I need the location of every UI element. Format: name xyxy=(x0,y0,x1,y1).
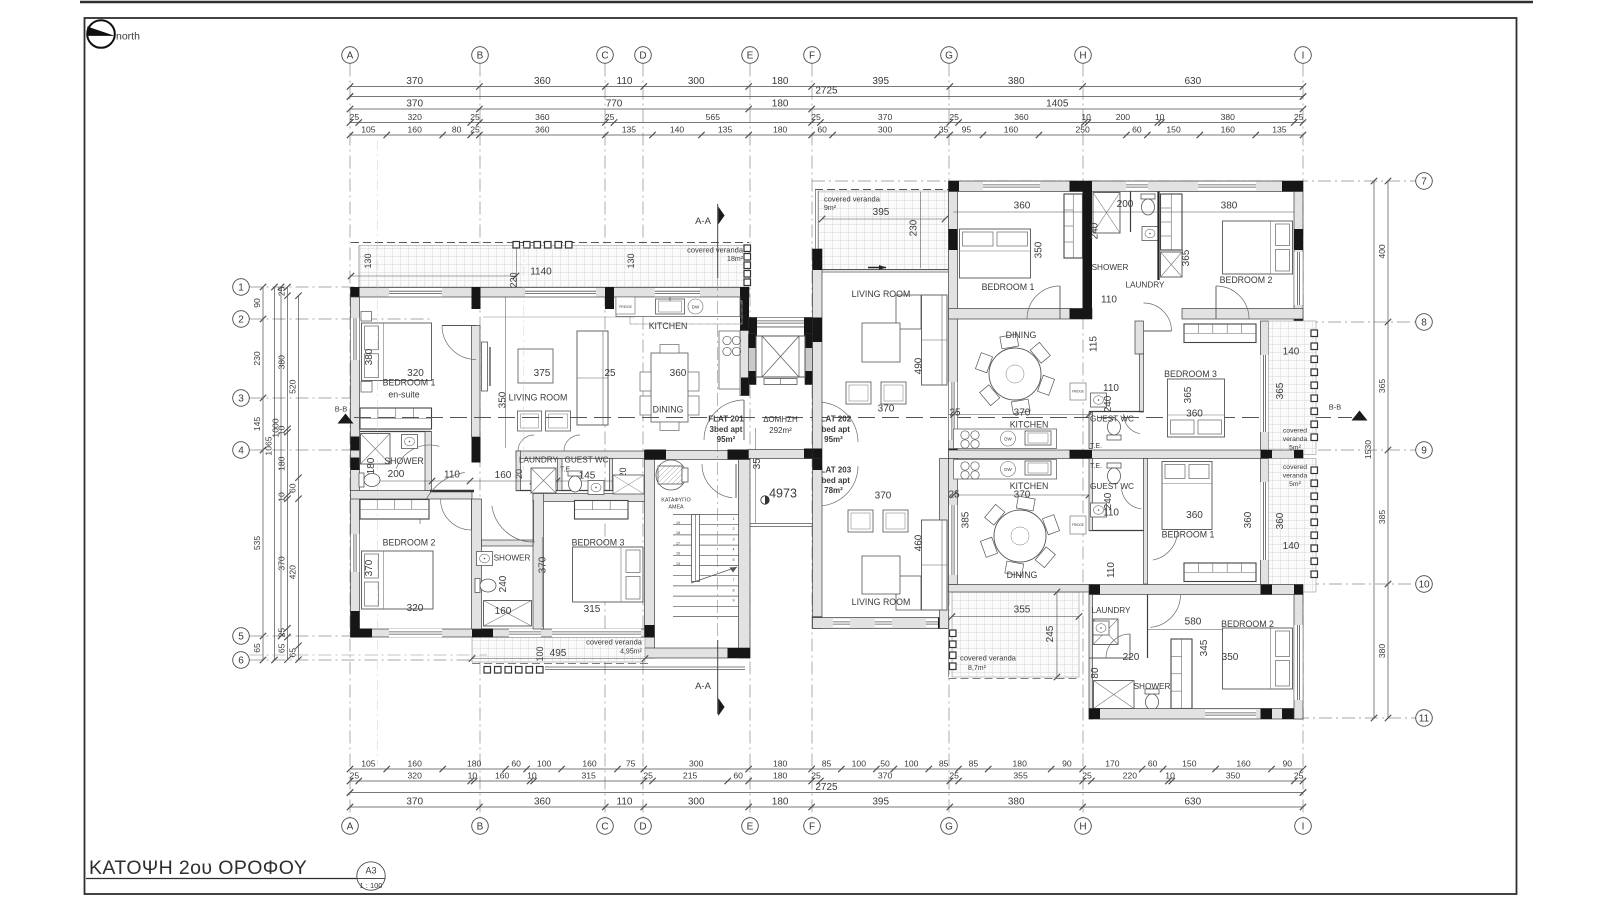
flat 203 entry door xyxy=(818,466,858,506)
bed bedroom 2 xyxy=(362,551,434,609)
dining chairs 202 xyxy=(1037,375,1054,395)
grid line row 8 (right) xyxy=(1305,321,1416,323)
svg-text:11: 11 xyxy=(1419,713,1430,724)
wardrobe xyxy=(1184,563,1256,582)
svg-text:365: 365 xyxy=(1275,382,1286,399)
svg-text:D: D xyxy=(639,50,646,61)
flat 203 bottom wall (row 11) xyxy=(1089,709,1303,720)
armchair xyxy=(883,510,908,532)
column row11 I xyxy=(1282,709,1303,720)
shower tray xyxy=(1093,193,1120,234)
dimension chain left inner (520 60 420) xyxy=(298,296,300,660)
svg-text:65: 65 xyxy=(277,643,287,653)
sink 202 xyxy=(1025,431,1051,445)
partition guestwc/bedroom1 203 xyxy=(1144,459,1148,585)
stairwell top wall xyxy=(645,451,751,460)
svg-text:180: 180 xyxy=(366,457,377,474)
svg-text:A: A xyxy=(347,50,354,61)
svg-text:80: 80 xyxy=(452,125,462,135)
window bedroom2 203 bottom xyxy=(1205,710,1256,718)
svg-text:2725: 2725 xyxy=(815,782,838,793)
grid bubble F top xyxy=(804,47,821,64)
svg-text:20: 20 xyxy=(514,469,524,479)
wardrobe xyxy=(1171,639,1192,709)
window bedroom2-202 xyxy=(1198,182,1256,190)
svg-text:en-suite: en-suite xyxy=(388,390,419,400)
svg-text:95m²: 95m² xyxy=(717,435,736,444)
grid line row 4 (left) xyxy=(250,449,353,451)
svg-text:90: 90 xyxy=(1282,759,1292,769)
svg-text:covered veranda: covered veranda xyxy=(824,195,881,204)
svg-text:200: 200 xyxy=(1116,112,1131,122)
grid line A (vertical) xyxy=(349,64,351,818)
window laundry 202 xyxy=(1126,182,1148,190)
svg-text:GUEST WC: GUEST WC xyxy=(565,456,609,465)
svg-text:135: 135 xyxy=(718,125,733,135)
grid line row 5 (left) xyxy=(250,635,353,637)
scale stamp A3 1:100 xyxy=(357,862,385,890)
shower tray xyxy=(1094,681,1135,709)
svg-text:140: 140 xyxy=(670,125,685,135)
veranda 8.7 dashed edge xyxy=(949,678,1080,680)
svg-text:630: 630 xyxy=(1184,797,1201,808)
column stair W2 xyxy=(645,648,655,658)
svg-text:6: 6 xyxy=(238,655,244,666)
dw 202 xyxy=(1001,431,1016,446)
svg-text:DW: DW xyxy=(692,305,700,310)
door guestwc 201 xyxy=(564,435,580,451)
svg-text:170: 170 xyxy=(1105,759,1120,769)
svg-text:400: 400 xyxy=(1377,244,1387,259)
svg-text:65: 65 xyxy=(252,643,262,653)
svg-text:BEDROOM 1: BEDROOM 1 xyxy=(383,378,436,388)
grid bubble B top xyxy=(472,47,489,64)
svg-text:1530: 1530 xyxy=(1363,440,1373,459)
svg-text:25: 25 xyxy=(470,112,480,122)
section A-A line through plan xyxy=(717,278,719,640)
svg-text:380: 380 xyxy=(1221,201,1238,212)
window dining 203 xyxy=(949,505,957,575)
svg-text:GUEST WC: GUEST WC xyxy=(1090,415,1134,424)
column G top xyxy=(949,181,960,192)
kitchen wall cabinets line xyxy=(616,300,742,302)
grid line C (vertical) xyxy=(604,64,606,818)
bedroom 3 top wall xyxy=(533,494,645,502)
stairwell bottom wall xyxy=(645,648,751,658)
svg-text:770: 770 xyxy=(606,99,623,110)
stair treads xyxy=(673,514,739,516)
grid bubble row 6 left xyxy=(233,652,250,669)
door bedroom 1 xyxy=(442,326,476,360)
column A5 corner xyxy=(351,629,373,638)
column A5 xyxy=(351,611,360,631)
chaise 202 xyxy=(896,295,921,329)
svg-text:180: 180 xyxy=(467,759,482,769)
wash basin xyxy=(1091,393,1107,407)
svg-text:25: 25 xyxy=(350,771,360,781)
door bedroom2 202 xyxy=(1216,286,1249,319)
column F south xyxy=(813,449,823,459)
svg-text:DW: DW xyxy=(1004,467,1012,472)
svg-text:BEDROOM 2: BEDROOM 2 xyxy=(383,538,436,548)
svg-text:85: 85 xyxy=(822,759,832,769)
table xyxy=(518,349,553,383)
svg-text:300: 300 xyxy=(688,76,705,87)
column mid shower xyxy=(1070,309,1093,320)
svg-text:385: 385 xyxy=(961,511,972,528)
svg-text:I: I xyxy=(1302,821,1305,832)
svg-text:380: 380 xyxy=(277,355,287,370)
column I row8 xyxy=(1294,309,1303,322)
svg-text:370: 370 xyxy=(875,491,892,502)
svg-text:25: 25 xyxy=(277,286,287,296)
svg-text:DINING: DINING xyxy=(653,405,684,415)
column row10 I xyxy=(1294,585,1303,595)
svg-text:380: 380 xyxy=(1221,112,1236,122)
table xyxy=(651,353,688,422)
svg-text:A: A xyxy=(347,821,354,832)
svg-text:ΚΑΤΑΦΥΓΙΟ: ΚΑΤΑΦΥΓΙΟ xyxy=(661,498,691,504)
svg-text:SHOWER: SHOWER xyxy=(1134,682,1171,691)
wardrobe xyxy=(1184,324,1256,343)
column bottom middle xyxy=(472,629,493,638)
kitchen overhead cabinet dashed outline xyxy=(630,301,742,324)
svg-text:365: 365 xyxy=(1183,386,1194,403)
flat 201 left wall xyxy=(351,297,360,637)
right building west wall (G) xyxy=(949,192,958,459)
wardrobe xyxy=(360,500,429,520)
svg-text:200: 200 xyxy=(1117,199,1134,210)
svg-text:KITCHEN: KITCHEN xyxy=(649,321,688,331)
svg-text:A-A: A-A xyxy=(695,681,712,692)
secondary grid line x=377 xyxy=(377,140,379,765)
svg-text:360: 360 xyxy=(1186,510,1203,521)
stair direction arrow xyxy=(691,567,737,583)
svg-text:10: 10 xyxy=(527,771,537,781)
svg-text:180: 180 xyxy=(277,456,287,471)
armchair xyxy=(848,510,873,532)
svg-text:115: 115 xyxy=(1089,336,1100,352)
svg-text:145: 145 xyxy=(252,417,262,432)
(dup) column xyxy=(645,450,667,460)
svg-text:2: 2 xyxy=(733,527,735,531)
column row10 W xyxy=(1089,585,1100,595)
svg-text:355: 355 xyxy=(1014,605,1031,616)
svg-text:25: 25 xyxy=(604,368,616,379)
svg-text:8: 8 xyxy=(733,588,735,592)
svg-text:105: 105 xyxy=(361,759,376,769)
svg-text:360: 360 xyxy=(534,76,551,87)
balustrade posts veranda right edge xyxy=(744,245,751,252)
armchair xyxy=(846,382,871,404)
dimension chain left total 1065 xyxy=(274,287,276,660)
svg-text:380: 380 xyxy=(364,348,375,365)
svg-text:7: 7 xyxy=(1421,176,1427,187)
svg-text:370: 370 xyxy=(538,556,549,573)
svg-text:490: 490 xyxy=(914,357,925,374)
grid bubble I top xyxy=(1295,47,1312,64)
svg-text:25: 25 xyxy=(1294,112,1304,122)
wash basin xyxy=(1093,621,1109,635)
dimension chain top row 1 (grid spans) xyxy=(350,86,1303,88)
veranda 4.95 rail lines xyxy=(545,666,745,668)
grid line row 3 (left) xyxy=(250,397,361,399)
svg-text:350: 350 xyxy=(498,391,509,408)
elevator shaft walls xyxy=(749,318,813,328)
window bedroom2-202 east xyxy=(1294,252,1302,305)
svg-text:95m²: 95m² xyxy=(824,435,843,444)
svg-text:A-A: A-A xyxy=(695,216,712,227)
grid line row 6 (left) xyxy=(250,659,488,661)
svg-text:LAUNDRY: LAUNDRY xyxy=(519,456,559,465)
svg-text:370: 370 xyxy=(406,797,423,808)
dishwasher xyxy=(688,299,703,314)
column living 203 SE xyxy=(938,618,949,629)
svg-text:10: 10 xyxy=(468,771,478,781)
svg-text:G: G xyxy=(945,821,953,832)
grid line row 9 (right) xyxy=(1318,449,1416,451)
svg-text:370: 370 xyxy=(1014,408,1031,419)
svg-text:110: 110 xyxy=(1106,562,1117,578)
table xyxy=(862,323,900,362)
svg-text:460: 460 xyxy=(914,534,925,551)
fridge xyxy=(616,297,635,314)
svg-text:4: 4 xyxy=(238,445,244,456)
sofa xyxy=(922,295,948,385)
hall dim line xyxy=(362,480,645,482)
svg-text:60: 60 xyxy=(817,125,827,135)
column core SE xyxy=(804,449,813,459)
window kitchen 202 xyxy=(949,382,957,440)
door laundry 203 xyxy=(1106,634,1130,658)
column F 203 south xyxy=(813,617,823,629)
armchair xyxy=(881,382,906,404)
flat 201 kitchen east wall xyxy=(740,331,749,396)
grid bubble A bottom xyxy=(342,818,359,835)
flat 203 east wall lower xyxy=(1294,595,1303,720)
toilet xyxy=(1145,689,1159,710)
column party 1 xyxy=(1070,450,1093,459)
flat 202 entry door xyxy=(818,402,858,442)
kitchen sink xyxy=(656,299,685,314)
svg-text:DINING: DINING xyxy=(1007,570,1038,580)
column core SW low xyxy=(749,371,757,385)
svg-text:BEDROOM 3: BEDROOM 3 xyxy=(572,538,625,548)
dw 203 xyxy=(1001,462,1016,477)
svg-text:DW: DW xyxy=(1004,437,1012,442)
hall lobby wall xyxy=(430,490,474,493)
secondary grid line x=524 xyxy=(523,246,525,470)
column A4a xyxy=(351,437,360,451)
column C1 xyxy=(605,287,614,309)
svg-text:E: E xyxy=(747,821,754,832)
svg-text:105: 105 xyxy=(361,125,376,135)
grid bubble row 8 right xyxy=(1416,314,1433,331)
stairwell west wall xyxy=(645,451,655,659)
svg-text:F: F xyxy=(809,50,815,61)
svg-text:D: D xyxy=(639,821,646,832)
svg-text:8,7m²: 8,7m² xyxy=(968,665,987,672)
svg-text:160: 160 xyxy=(1236,759,1251,769)
dimension chain left outer (90 230 145 535 65) xyxy=(262,287,264,660)
svg-text:covered veranda: covered veranda xyxy=(687,246,744,255)
column I mid1 xyxy=(1294,229,1303,250)
grid bubble D bottom xyxy=(635,818,652,835)
window shower 2 bottom xyxy=(509,629,541,637)
svg-text:345: 345 xyxy=(1199,639,1210,656)
svg-text:T.E.: T.E. xyxy=(1090,463,1102,470)
sofa xyxy=(577,331,608,425)
svg-text:LIVING ROOM: LIVING ROOM xyxy=(509,393,568,403)
svg-text:LIVING ROOM: LIVING ROOM xyxy=(852,597,911,607)
bedroom 2 top wall xyxy=(351,491,473,500)
svg-text:220: 220 xyxy=(1123,771,1138,781)
svg-text:100: 100 xyxy=(537,759,552,769)
svg-text:10: 10 xyxy=(277,492,287,502)
door bedroom3 202 xyxy=(1144,303,1172,331)
kitchen 202 counter xyxy=(954,429,1057,449)
svg-text:G: G xyxy=(945,50,953,61)
svg-text:60: 60 xyxy=(288,483,298,493)
svg-text:535: 535 xyxy=(252,536,262,551)
svg-text:110: 110 xyxy=(1103,508,1119,519)
svg-text:10: 10 xyxy=(277,425,287,435)
window bedroom3 202 xyxy=(1260,355,1268,432)
flat 201 bottom wall xyxy=(351,629,654,637)
svg-text:360: 360 xyxy=(1014,112,1029,122)
wall under closet xyxy=(360,431,432,433)
svg-text:7: 7 xyxy=(733,578,735,582)
door stairwell xyxy=(702,464,732,498)
table xyxy=(862,556,900,594)
grid bubble C top xyxy=(597,47,614,64)
svg-text:1: 1 xyxy=(733,517,735,521)
svg-text:292m²: 292m² xyxy=(769,426,792,435)
flat 203 kitchen west wall xyxy=(949,459,958,585)
grid line H (vertical) xyxy=(1082,64,1084,818)
column G south xyxy=(949,449,958,459)
laundry 203 walls xyxy=(1089,595,1093,720)
svg-text:25: 25 xyxy=(277,628,287,638)
svg-text:315: 315 xyxy=(582,771,597,781)
svg-text:15: 15 xyxy=(676,562,680,566)
svg-text:I: I xyxy=(1302,50,1305,61)
door bedroom2 203 xyxy=(1150,595,1180,628)
column core NW2 xyxy=(749,334,757,348)
column row10 mid xyxy=(1261,585,1273,595)
grid line row 1 (left) xyxy=(250,286,361,288)
svg-text:160: 160 xyxy=(582,759,597,769)
hob 203 xyxy=(961,462,969,470)
dimension chain top row 5 (openings) xyxy=(350,134,1303,136)
window bedroom2 203 east xyxy=(1294,625,1302,700)
flat 201 entry door xyxy=(704,400,744,440)
column core SE low xyxy=(805,371,813,385)
hob 202 xyxy=(961,431,969,439)
svg-text:1405: 1405 xyxy=(1046,99,1069,110)
column row11 mid xyxy=(1261,709,1273,720)
dining table 203 xyxy=(994,510,1046,562)
svg-text:covered veranda: covered veranda xyxy=(586,638,643,647)
svg-text:160: 160 xyxy=(495,606,512,617)
svg-text:25: 25 xyxy=(811,771,821,781)
covered veranda xyxy=(359,246,749,288)
window kitchen xyxy=(655,288,700,296)
shower 2 top wall xyxy=(482,540,534,546)
posts veranda 202 east xyxy=(1311,330,1318,337)
svg-text:85: 85 xyxy=(969,759,979,769)
window bedroom1 203 xyxy=(1260,482,1268,560)
svg-text:F: F xyxy=(809,821,815,832)
svg-text:9m²: 9m² xyxy=(824,205,837,212)
svg-text:150: 150 xyxy=(1166,125,1181,135)
bed bedroom1 202 xyxy=(960,229,1031,278)
grid line E (vertical) xyxy=(749,64,751,818)
svg-text:35: 35 xyxy=(939,125,949,135)
svg-text:10: 10 xyxy=(1081,112,1091,122)
svg-text:2: 2 xyxy=(238,314,244,325)
svg-text:110: 110 xyxy=(617,76,633,87)
section B-B line xyxy=(354,417,1352,419)
guest wc 202 walls xyxy=(1089,412,1093,449)
svg-text:580: 580 xyxy=(1185,617,1202,628)
svg-text:BEDROOM 1: BEDROOM 1 xyxy=(1162,530,1215,540)
svg-text:360: 360 xyxy=(670,368,687,379)
grid line row 2 (left) xyxy=(250,318,431,320)
svg-text:covered: covered xyxy=(1283,464,1307,471)
svg-text:covered: covered xyxy=(1283,428,1307,435)
bed bedroom2 202 xyxy=(1223,221,1293,274)
dimension chain left wall offsets xyxy=(287,287,289,660)
partition bedroom1/living room xyxy=(472,326,481,438)
svg-text:160: 160 xyxy=(1004,125,1019,135)
dining chairs xyxy=(640,372,651,391)
bed bedroom3 202 xyxy=(1168,379,1225,437)
column F mid xyxy=(813,318,823,343)
veranda 9m2 west edge xyxy=(815,190,817,271)
svg-text:25: 25 xyxy=(949,112,959,122)
svg-text:630: 630 xyxy=(1184,76,1201,87)
svg-text:16: 16 xyxy=(676,552,680,556)
svg-text:375: 375 xyxy=(534,368,551,379)
covered veranda xyxy=(472,638,645,663)
svg-text:3bed apt: 3bed apt xyxy=(710,425,743,434)
column G mid xyxy=(949,229,958,250)
svg-text:360: 360 xyxy=(534,797,551,808)
bedroom3 202 east wall xyxy=(1261,321,1269,450)
grid bubble row 5 left xyxy=(233,628,250,645)
svg-text:370: 370 xyxy=(406,99,423,110)
svg-text:320: 320 xyxy=(408,771,423,781)
bedside table bedroom1 bottom xyxy=(361,382,372,393)
svg-text:385: 385 xyxy=(1377,510,1387,525)
dimension chain top row 3 (370 770 180 1405) xyxy=(350,108,1303,110)
column kitchen SE xyxy=(741,378,749,396)
svg-text:3: 3 xyxy=(238,393,244,404)
grid bubble B bottom xyxy=(472,818,489,835)
column core NW xyxy=(749,318,758,346)
svg-text:395: 395 xyxy=(873,207,890,218)
svg-text:FRIDGE: FRIDGE xyxy=(1072,523,1084,527)
svg-text:160: 160 xyxy=(495,771,510,781)
svg-text:25: 25 xyxy=(949,771,959,781)
svg-text:C: C xyxy=(601,50,608,61)
svg-text:25: 25 xyxy=(350,112,360,122)
sink 203 xyxy=(1025,461,1051,475)
guestwc/te partition xyxy=(610,459,613,491)
svg-text:ΚΑΤΟΨΗ 2ου ΟΡΟΦΟΥ: ΚΑΤΟΨΗ 2ου ΟΡΟΦΟΥ xyxy=(89,857,307,879)
svg-text:90: 90 xyxy=(252,298,262,308)
